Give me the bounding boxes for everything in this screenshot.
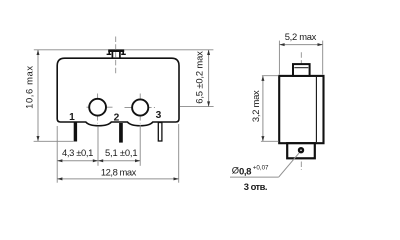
svg-text:3 отв.: 3 отв.	[244, 181, 267, 192]
hole 2	[132, 99, 148, 115]
pin 1	[74, 123, 77, 142]
dimension 12,8 max	[57, 167, 179, 181]
svg-text:4,3 ±0,1: 4,3 ±0,1	[62, 147, 93, 158]
svg-text:5,2 max: 5,2 max	[285, 31, 317, 42]
svg-text:5,1 ±0,1: 5,1 ±0,1	[105, 147, 137, 158]
svg-text:12,8 max: 12,8 max	[101, 167, 137, 178]
svg-text:3: 3	[156, 110, 162, 121]
hole 2 centerlines	[125, 94, 156, 124]
svg-text:0,8: 0,8	[239, 166, 252, 177]
switch body side view	[279, 76, 323, 143]
svg-text:2: 2	[114, 112, 120, 123]
hole 1	[89, 99, 106, 116]
leader line hole diameter	[230, 153, 299, 177]
side view centerline	[300, 52, 302, 170]
plunger side view	[293, 64, 310, 76]
plunger front view	[107, 51, 126, 59]
dimension 5,2 max	[279, 31, 322, 74]
svg-text:3,2 max: 3,2 max	[250, 90, 261, 122]
plunger centerline	[115, 37, 117, 75]
bottom extension lines	[57, 124, 179, 183]
pin 2	[119, 123, 123, 143]
switch body front view	[57, 58, 179, 126]
terminal hole	[299, 148, 303, 152]
svg-text:6,5 ±0,2 max: 6,5 ±0,2 max	[194, 51, 205, 104]
svg-text:1: 1	[69, 112, 75, 123]
svg-text:Ø: Ø	[232, 164, 239, 175]
extension line plunger top level	[34, 49, 214, 51]
terminal block side view	[287, 143, 315, 158]
svg-text:10,6 max: 10,6 max	[23, 65, 34, 109]
dimension 10,6 max	[23, 50, 73, 142]
dimension 3,2 max	[250, 76, 279, 142]
svg-text:+0,07: +0,07	[253, 164, 269, 171]
dimension 6,5 +-0,2 max	[180, 50, 214, 107]
dimension 4,3 +-0,1	[57, 147, 140, 162]
plunger side inner line	[294, 67, 308, 69]
pin 3	[158, 123, 162, 142]
hole 1 centerlines	[87, 94, 113, 124]
side body inner edge	[315, 77, 317, 142]
